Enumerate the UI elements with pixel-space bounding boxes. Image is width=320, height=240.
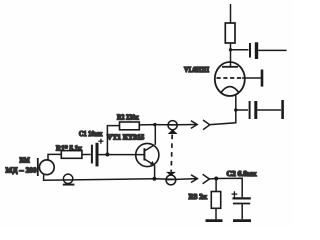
connector plug XP1 arrow (upper) [168,121,197,129]
microphone BM1 МД-200 membrane bar [37,158,39,176]
connector shield circle (lower) [166,175,176,185]
wire: rail to lower shield circle [154,178,176,181]
node: R3/C2 junction [214,177,218,181]
wire: supply lead at top [230,4,232,23]
connector shield circle (upper) [168,121,177,130]
wire: grid lead to terminal [242,77,261,79]
tube grid (dashed) [217,77,243,79]
capacitor C1 [92,143,97,167]
capacitor C4 (unlabeled) [250,101,256,119]
wire: C4 to terminal [257,109,281,111]
capacitor C2 (electrolytic) [233,198,251,203]
connector plug XP2 arrow (lower) [166,175,197,183]
wire: cathode node to capacitor C4 [236,109,248,111]
label + polarity C1 [98,139,103,144]
wire: socket to R3 node [209,178,216,181]
wire: R2 left lead down to base [107,126,119,155]
wire: anode node down to tube plate [230,50,232,67]
resistor R3 [211,192,220,209]
connector shield circle on rail (input) [63,174,72,183]
wire: node down to R3 [215,179,217,192]
svg-text:R3 2к: R3 2к [189,194,207,201]
wire: mic top lead [48,154,61,160]
svg-text:R2 220к: R2 220к [117,114,139,121]
wire: R2 right lead [139,124,155,126]
connector shield arrow (upper) [168,129,178,134]
resistor R2 [120,122,140,130]
svg-text:VL6Н2П: VL6Н2П [184,67,210,74]
wire: R4 bottom to anode node [230,43,232,50]
transistor collector stroke [144,145,154,151]
tube anode plate [222,66,238,68]
wire: R1 to C1 [82,154,91,156]
connector socket XS2 (lower, ">") [203,174,210,184]
ground bar under R3 [206,219,223,222]
transistor base bar [143,148,145,160]
wire: C2 to ground [241,204,243,219]
terminal: grid connection bar [261,70,264,87]
svg-text:R1* 5.1к: R1* 5.1к [56,145,82,152]
svg-text:C1 10мк: C1 10мк [79,131,103,138]
wire: collector lead [154,125,156,145]
wire: R2 top rail to shield circle [155,124,177,126]
node: base junction [105,153,109,157]
shield link (dashed) [171,135,172,172]
svg-text:VT1 КТ315: VT1 КТ315 [107,134,145,141]
wire: mic bottom lead and ground rail [44,175,155,181]
label + polarity C2 [232,191,238,197]
capacitor C3 (coupling, unlabeled) [250,42,257,59]
resistor R4 (anode load, unlabeled) [225,23,235,43]
wire: emitter lead [154,165,156,179]
svg-text:МД -- 200: МД -- 200 [6,167,37,174]
wire: cathode node down and left to upper socket [210,110,236,125]
wire: R3 to ground [215,208,217,219]
svg-text:C2 6.8мк: C2 6.8мк [227,171,257,178]
transistor VT1 КТ315 envelope [136,143,159,166]
wire: C3 to right edge [258,49,286,51]
microphone BM1 body [39,160,54,175]
connector socket XS1 (upper, ">") [203,120,210,130]
connector shield arrow (lower) [166,172,176,176]
node: emitter junction on ground rail [152,177,156,181]
ground bar under C2 [233,219,251,222]
node: cathode junction [234,108,237,111]
svg-text:ВМ: ВМ [20,158,31,165]
tube VL1 6Н2П envelope [215,62,245,96]
wire: cathode lead [235,95,237,110]
node: anode junction [229,48,232,51]
resistor R1 [61,151,82,159]
node: collector junction [153,123,156,126]
wire: C1 to base [99,154,145,156]
tube cathode [221,87,239,93]
wire: anode node to capacitor C3 [231,49,249,51]
connector shield wedge on rail [63,184,75,186]
terminal: output bar [281,100,284,119]
wire: node to C2 [216,178,242,197]
transistor emitter stroke with arrow [144,159,154,165]
